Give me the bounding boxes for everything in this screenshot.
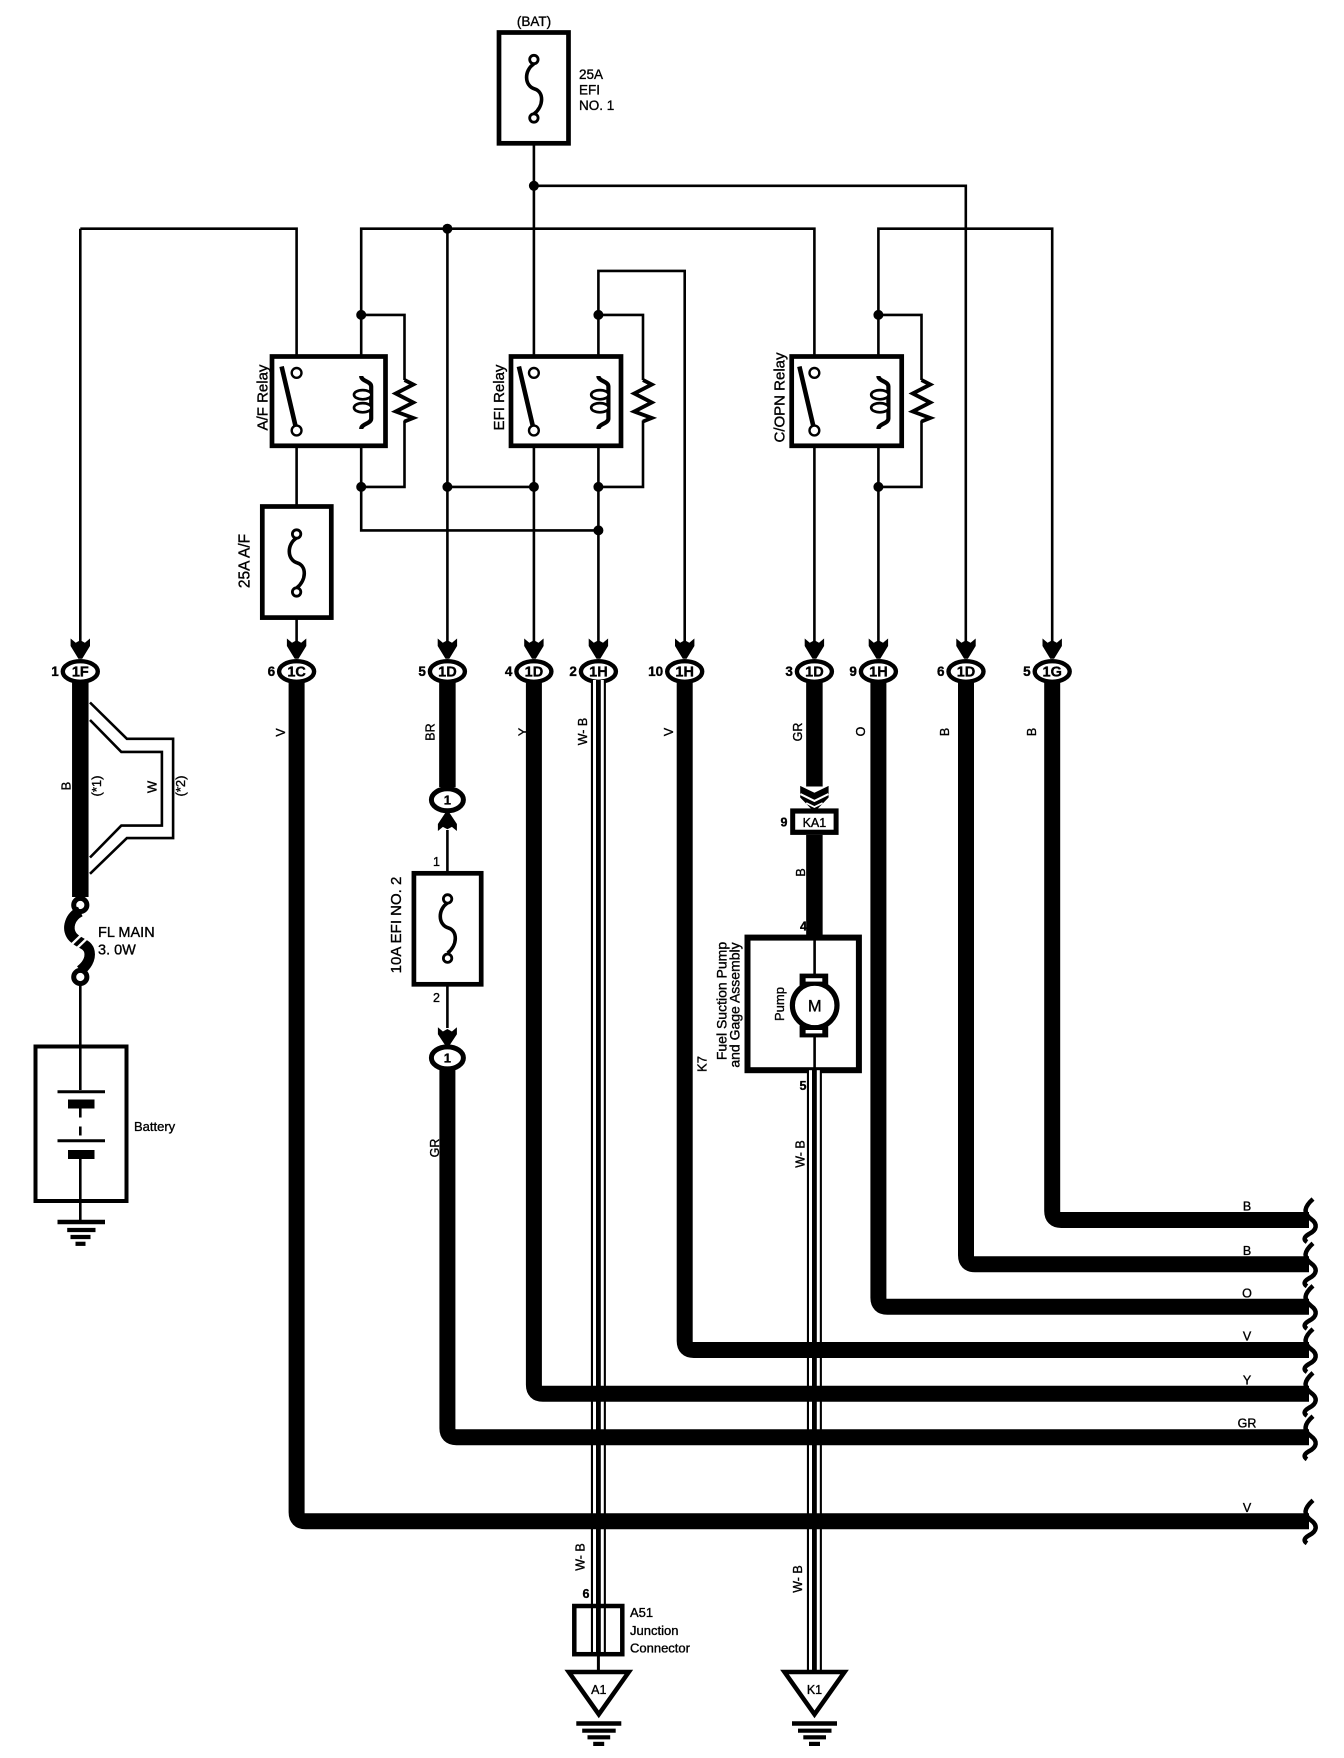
svg-text:EFI Relay: EFI Relay [491, 364, 508, 430]
wire B from pin 1F to FL MAIN [59, 680, 105, 897]
wire C/OPN resistor top branch [878, 315, 921, 380]
svg-text:3. 0W: 3. 0W [98, 943, 136, 959]
svg-text:K1: K1 [807, 1683, 822, 1697]
relay C/OPN Relay [772, 352, 902, 446]
svg-text:(*1): (*1) [89, 776, 104, 797]
svg-text:Y: Y [517, 727, 531, 736]
svg-text:BR: BR [424, 723, 438, 740]
svg-text:25A A/F: 25A A/F [237, 534, 254, 588]
node rail branch lower junction [442, 482, 452, 492]
connector pin 5 1G arrow [1043, 639, 1062, 659]
wire EFI output rail A/F coil to C/OPN switch [361, 229, 814, 357]
node A/F coil bottom junction [356, 482, 366, 492]
fuel pump assembly K7 box [695, 938, 859, 1072]
wire GR from junction to right edge [447, 1070, 1309, 1437]
switch contact circles C/OPN [810, 368, 820, 378]
wire Y from 1D-4 to right edge [534, 680, 1309, 1394]
wire C/OPN coil bottom to pin 1H-9 [877, 446, 880, 641]
svg-text:GR: GR [791, 723, 805, 742]
node C/OPN coil bottom junction [873, 482, 883, 492]
wire B from 1G-5 to right edge [1052, 680, 1309, 1220]
resistor EFI relay shunt [634, 380, 652, 422]
svg-text:1D: 1D [805, 664, 824, 680]
connector pin 6 1C oval [268, 661, 315, 682]
wire C/OPN switch output to pin 1D-3 [813, 446, 816, 641]
connector pin 3 1D oval [785, 661, 832, 682]
svg-text:Battery: Battery [134, 1119, 176, 1134]
svg-text:K7: K7 [695, 1056, 710, 1072]
wire fuse pin 2 to junction connector [433, 984, 447, 1028]
svg-text:FL MAIN: FL MAIN [98, 925, 155, 941]
svg-text:W- B: W- B [574, 1543, 588, 1571]
wire V from 1H-10 to right edge [685, 680, 1309, 1350]
wire EFI resistor bottom link [598, 421, 643, 487]
relay A/F Relay [255, 357, 386, 446]
wire break symbol Y [1305, 1373, 1316, 1416]
svg-text:1D: 1D [525, 664, 544, 680]
connector pin 6 1D oval [937, 661, 984, 682]
wire C/OPN resistor bottom link [878, 421, 921, 487]
svg-text:W- B: W- B [791, 1565, 805, 1593]
wire break symbol B [1305, 1243, 1316, 1286]
arrow down into junction connector [438, 1027, 457, 1046]
connector arrows into KA1 [800, 786, 828, 809]
svg-text:V: V [1243, 1501, 1252, 1515]
svg-text:Pump: Pump [772, 987, 787, 1021]
connector pin 4 1D oval [505, 661, 552, 682]
connector pin 1 1F arrow [71, 639, 90, 659]
fuse 25A A/F [237, 507, 332, 618]
svg-text:4: 4 [505, 664, 513, 679]
svg-text:3: 3 [785, 664, 793, 679]
svg-text:1H: 1H [589, 664, 608, 680]
node EFI switch output junction [529, 482, 539, 492]
wire W alternate branch ribbon [90, 703, 188, 874]
wire B from KA1 to pump terminal 4 [794, 835, 814, 938]
wire break symbol O [1305, 1286, 1316, 1329]
resistor A/F relay shunt [396, 380, 414, 422]
svg-text:B: B [1243, 1244, 1251, 1258]
svg-text:A/F Relay: A/F Relay [255, 364, 272, 430]
svg-text:Junction: Junction [630, 1623, 678, 1638]
wire FL MAIN to battery [79, 984, 82, 1047]
svg-text:6: 6 [583, 1587, 590, 1601]
wire V from 1C to right edge [297, 680, 1309, 1521]
svg-text:9: 9 [781, 816, 788, 830]
svg-text:A1: A1 [591, 1683, 606, 1697]
svg-text:W- B: W- B [794, 1140, 808, 1168]
wire C/OPN coil rail to pin 1G-5 [878, 229, 1052, 641]
svg-text:W: W [145, 780, 160, 793]
svg-text:KA1: KA1 [803, 816, 827, 830]
connector pin 5 1D oval [418, 661, 465, 682]
wire EFI resistor top branch [598, 315, 643, 380]
svg-text:W- B: W- B [576, 718, 590, 746]
coil EFI [598, 376, 608, 429]
svg-text:2: 2 [569, 664, 577, 679]
wire rail branch down to pin 1D-5 [446, 229, 449, 641]
svg-text:O: O [1242, 1286, 1252, 1300]
svg-text:1: 1 [444, 793, 451, 808]
connector pin 5 1G oval [1023, 661, 1070, 682]
fusible link FL MAIN 3.0W [69, 898, 154, 983]
svg-text:6: 6 [268, 664, 276, 679]
svg-text:1: 1 [51, 664, 59, 679]
wire A/F resistor top branch [361, 315, 404, 380]
connector pin 3 1D arrow [805, 639, 824, 659]
wire BR from pin 1D-5 to junction connector [424, 680, 448, 787]
svg-text:GR: GR [1238, 1417, 1257, 1431]
switch blade C/OPN [799, 367, 814, 429]
wire EFI switch output link to rail branch [447, 486, 534, 489]
junction connector A51 [574, 1605, 690, 1656]
svg-text:10A EFI NO. 2: 10A EFI NO. 2 [388, 877, 405, 974]
battery [36, 1047, 176, 1223]
wire break symbol V [1305, 1329, 1316, 1372]
svg-text:5: 5 [800, 1079, 807, 1093]
node fuse output junction [529, 181, 539, 191]
svg-text:1F: 1F [72, 664, 89, 680]
connector pin 1 1F oval [51, 661, 98, 682]
svg-text:1H: 1H [869, 664, 888, 680]
connector pin 6 1D arrow [956, 639, 975, 659]
svg-text:O: O [854, 726, 868, 736]
svg-text:1D: 1D [438, 664, 457, 680]
wire junction connector to fuse pin 1 [433, 830, 447, 873]
wire EFI coil top to pin 1H-10 [598, 271, 684, 641]
svg-text:9: 9 [849, 664, 857, 679]
svg-text:A51: A51 [630, 1605, 653, 1620]
coil C/OPN [878, 376, 888, 429]
connector pin 2 1H oval [569, 661, 616, 682]
svg-text:M: M [808, 997, 822, 1015]
svg-text:V: V [662, 727, 676, 736]
svg-text:6: 6 [937, 664, 945, 679]
junction connector 1 upper [431, 789, 463, 811]
fuse 10A EFI NO.2 [388, 873, 481, 984]
ground K1 [785, 1672, 845, 1744]
wire break symbol V [1305, 1500, 1316, 1543]
node C/OPN resistor top junction [873, 310, 883, 320]
svg-text:1G: 1G [1043, 664, 1062, 680]
svg-text:V: V [1243, 1330, 1252, 1344]
svg-text:NO. 1: NO. 1 [579, 98, 614, 113]
svg-text:B: B [938, 728, 952, 736]
svg-text:(*2): (*2) [173, 776, 188, 797]
svg-text:5: 5 [1023, 664, 1031, 679]
svg-text:25A: 25A [579, 67, 603, 82]
connector pin 10 1H oval [648, 661, 702, 682]
wire W-B from pump terminal 5 to ground K1 [791, 1070, 822, 1672]
switch contact circles EFI [529, 368, 539, 378]
svg-text:B: B [1243, 1200, 1251, 1214]
svg-text:4: 4 [800, 920, 807, 934]
svg-text:1H: 1H [675, 664, 694, 680]
coil A/F [361, 376, 371, 429]
wire battery rail to A/F relay switch [80, 229, 296, 357]
svg-text:2: 2 [433, 991, 440, 1005]
connector pin 6 1C arrow [287, 639, 306, 659]
svg-text:V: V [274, 728, 288, 737]
svg-text:5: 5 [418, 664, 426, 679]
wire B from 1D-6 to right edge [966, 680, 1309, 1264]
wire fuse 25A A/F to pin 1C [295, 618, 298, 641]
switch blade A/F [282, 367, 297, 429]
svg-text:B: B [59, 782, 74, 791]
switch blade EFI [519, 367, 534, 429]
wire GR from pin 1D-3 to KA1 [791, 680, 814, 787]
node EFI resistor top junction [593, 310, 603, 320]
wire rail down to pin 1F [79, 229, 82, 641]
wire A/F coil bottom to ground bus [361, 446, 598, 531]
svg-text:B: B [794, 868, 808, 876]
wire A51 to ground A1 [597, 1654, 600, 1672]
wire A/F resistor bottom link [361, 421, 404, 487]
switch contact circles A/F [292, 368, 302, 378]
ground A1 [569, 1672, 629, 1744]
svg-text:1: 1 [433, 855, 440, 869]
wire W-B from pin 1H-2 to A51 [574, 680, 606, 1654]
wire break symbol GR [1305, 1416, 1316, 1459]
wire EFI switch output to pin 1D-4 [533, 446, 536, 641]
svg-text:C/OPN Relay: C/OPN Relay [772, 352, 789, 443]
svg-text:1: 1 [444, 1051, 451, 1066]
arrow up into junction connector [438, 812, 457, 831]
svg-text:(BAT): (BAT) [517, 14, 551, 29]
wire break symbol B [1305, 1199, 1316, 1242]
wire fuse output rail to pin 1D-6 [534, 186, 966, 641]
node EFI coil bottom junction [593, 482, 603, 492]
svg-text:B: B [1025, 728, 1039, 736]
connector pin 4 1D arrow [524, 639, 543, 659]
fuse 25A EFI NO.1 (BAT) [499, 14, 614, 143]
svg-text:Connector: Connector [630, 1641, 691, 1656]
resistor C/OPN relay shunt [913, 380, 931, 422]
wire from fuse to EFI relay switch [533, 143, 536, 356]
wire EFI coil bottom to pin 1H-2 [597, 446, 600, 641]
svg-text:and Gage Assembly: and Gage Assembly [727, 942, 743, 1067]
svg-text:EFI: EFI [579, 83, 600, 98]
svg-text:1C: 1C [287, 664, 306, 680]
motor M fuel pump [792, 938, 837, 1071]
svg-text:10: 10 [648, 664, 663, 679]
connector pin 5 1D arrow [438, 639, 457, 659]
ground battery [58, 1222, 106, 1244]
connector pin 2 1H arrow [589, 639, 608, 659]
node rail branch junction [442, 224, 452, 234]
connector KA1 [781, 808, 839, 835]
wire A/F switch to fuse 25A A/F [295, 446, 298, 507]
connector pin 10 1H arrow [675, 639, 694, 659]
relay EFI Relay [491, 357, 621, 446]
svg-text:Y: Y [1243, 1373, 1252, 1387]
svg-text:1D: 1D [957, 664, 976, 680]
connector pin 9 1H oval [849, 661, 896, 682]
node A/F resistor top junction [356, 310, 366, 320]
connector pin 9 1H arrow [869, 639, 888, 659]
wire O from 1H-9 to right edge [878, 680, 1309, 1307]
node ground bus junction [593, 525, 603, 535]
junction connector 1 lower [431, 1047, 463, 1069]
